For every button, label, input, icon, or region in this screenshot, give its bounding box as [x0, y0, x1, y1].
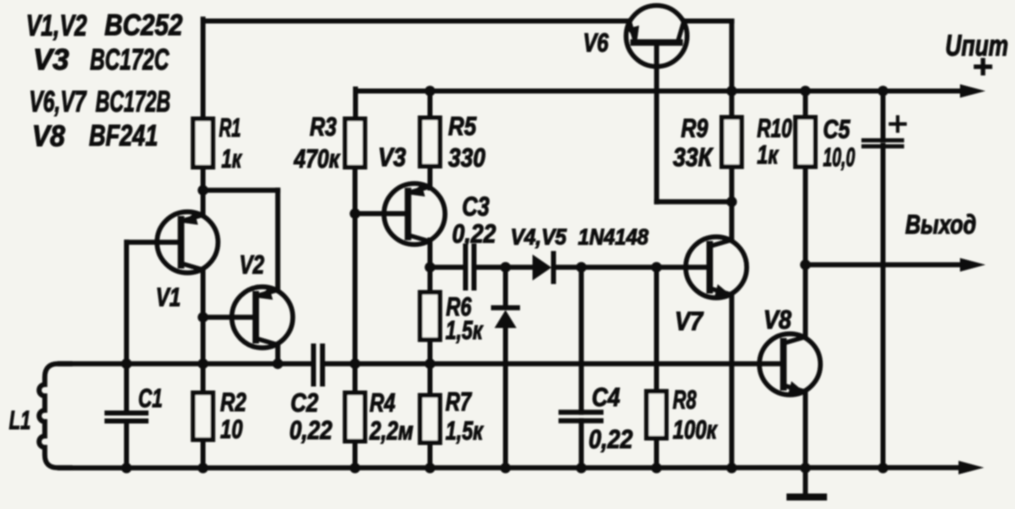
wire C1 branch — [124, 364, 129, 413]
wire V3 base lead — [355, 211, 408, 216]
svg-text:BC172C: BC172C — [90, 44, 169, 77]
wire V6 collector to Vcc rail — [684, 19, 732, 24]
junction at 505.5,468 — [500, 463, 511, 474]
junction at 805.4,264.8 — [800, 260, 811, 271]
wire C3 node segment left — [430, 265, 464, 270]
junction at 731.7,91 — [726, 86, 737, 97]
svg-text:R2: R2 — [220, 387, 246, 417]
wire V7 collector up — [729, 202, 734, 240]
svg-text:100к: 100к — [673, 415, 718, 445]
wire V7 emitter down — [729, 295, 734, 468]
wire V1 emitter up — [201, 190, 206, 215]
resistor R10 — [796, 117, 816, 166]
wire V8 emitter to ground — [803, 392, 808, 494]
wire V2 base lead — [203, 315, 256, 320]
transistor V1 — [157, 212, 218, 273]
wire R5 to V3 collector — [428, 91, 433, 116]
svg-text:1,5к: 1,5к — [446, 315, 484, 345]
ground symbol — [790, 494, 824, 501]
svg-text:R3: R3 — [310, 112, 337, 142]
wire R1 bottom to V2 collector — [201, 170, 206, 191]
junction at 355,468 — [350, 463, 361, 474]
svg-text:V4,V5: V4,V5 — [511, 225, 568, 250]
svg-text:L1: L1 — [9, 405, 31, 435]
wire C4 branch vertical — [579, 267, 584, 412]
wire V1 branch down to R2 — [201, 317, 206, 390]
diode V5 — [495, 310, 517, 328]
svg-text:V7: V7 — [675, 306, 704, 336]
wire mid node C2 to V8 base — [325, 361, 783, 366]
junction at 126.5,468 — [121, 463, 132, 474]
svg-text:1к: 1к — [221, 144, 242, 174]
resistor R3 — [345, 119, 365, 167]
svg-text:V2: V2 — [239, 250, 264, 280]
junction at 203,363.8 — [198, 359, 209, 370]
capacitor C5 polarized — [864, 138, 903, 142]
junction at 355,363.8 — [350, 359, 361, 370]
resistor R8 — [647, 391, 667, 438]
junction at 430,91 — [425, 86, 436, 97]
svg-text:R8: R8 — [673, 385, 697, 415]
junction at 126.5,363.8 — [121, 359, 132, 370]
svg-text:V1: V1 — [156, 282, 181, 312]
svg-text:Выход: Выход — [905, 210, 976, 240]
capacitor C2 — [311, 346, 316, 384]
svg-text:BF241: BF241 — [89, 120, 158, 153]
resistor R7 — [420, 395, 440, 442]
wire R8 branch vertical — [654, 267, 659, 389]
junction at 430,363.8 — [425, 359, 436, 370]
arrowhead ground rail — [959, 461, 985, 475]
svg-text:V3: V3 — [33, 44, 70, 77]
transistor V3 — [384, 184, 445, 245]
wire output line — [805, 262, 962, 267]
junction at 805.4,91 — [800, 86, 811, 97]
junction at 805.4,468 — [800, 463, 811, 474]
svg-text:0,22: 0,22 — [452, 219, 496, 249]
svg-text:R5: R5 — [448, 111, 476, 141]
junction at 731.7,468 — [726, 463, 737, 474]
junction at 430,267.3 — [425, 262, 436, 273]
svg-text:1к: 1к — [757, 140, 779, 170]
wire R3 branch vertical — [353, 89, 358, 117]
wire R7 branch — [428, 364, 433, 393]
wire C3 to V4 diode — [476, 265, 533, 270]
junction at 203,317.3 — [198, 312, 209, 323]
svg-text:0,22: 0,22 — [289, 415, 332, 445]
wire V4 to V7 base — [554, 265, 710, 270]
svg-text:33К: 33К — [673, 142, 714, 172]
capacitor C3 — [463, 246, 468, 288]
resistor R9 — [722, 117, 742, 166]
svg-text:R9: R9 — [681, 113, 708, 143]
svg-text:V6,V7: V6,V7 — [29, 86, 87, 119]
svg-text:V8: V8 — [763, 305, 791, 335]
svg-text:2,2м: 2,2м — [369, 416, 414, 446]
svg-text:10,0: 10,0 — [823, 142, 855, 172]
svg-text:330: 330 — [448, 143, 485, 173]
svg-text:V1,V2: V1,V2 — [26, 10, 87, 43]
resistor R2 — [193, 393, 213, 440]
transistor V8 — [759, 334, 820, 395]
wire V1 collector down to V2 base — [201, 270, 206, 318]
svg-text:BC172B: BC172B — [96, 86, 171, 119]
junction at 883,468 — [878, 463, 889, 474]
wire top from R1 to V6 emitter — [203, 19, 629, 24]
junction at 731.7,201.8 — [726, 197, 737, 208]
resistor R4 — [345, 393, 365, 441]
svg-text:1,5к: 1,5к — [446, 416, 485, 446]
junction at 581.3,468 — [576, 463, 587, 474]
svg-text:470к: 470к — [293, 144, 341, 174]
svg-text:R10: R10 — [757, 113, 792, 143]
svg-text:10: 10 — [220, 414, 243, 444]
junction at 203,468 — [198, 463, 209, 474]
wire R10 down to V8 collector — [803, 91, 808, 115]
svg-text:V8: V8 — [32, 120, 66, 153]
resistor R6 — [420, 292, 440, 339]
wire V3 emitter down to C3 node — [428, 240, 433, 267]
arrowhead Vcc rail — [960, 84, 986, 98]
transistor V2 — [232, 287, 293, 348]
resistor R5 — [420, 118, 440, 166]
svg-text:R4: R4 — [370, 388, 396, 418]
diode V4 — [533, 255, 552, 281]
wire R6 branch — [428, 267, 433, 290]
junction at 430,468 — [425, 463, 436, 474]
wire mid node from L1 to C2 — [60, 361, 312, 366]
capacitor C4 — [561, 410, 601, 415]
junction at 883,91 — [878, 86, 889, 97]
junction at 656.5,468 — [651, 463, 662, 474]
junction at 355,213.6 — [350, 208, 361, 219]
svg-text:BC252: BC252 — [105, 9, 184, 42]
resistor R1 — [193, 119, 213, 167]
junction at 581.3,267.3 — [576, 262, 587, 273]
svg-text:1N4148: 1N4148 — [578, 225, 649, 250]
wire R9 branch — [729, 91, 734, 115]
svg-text:C4: C4 — [592, 382, 621, 412]
svg-text:C3: C3 — [462, 192, 490, 222]
svg-text:V3: V3 — [378, 142, 406, 172]
junction at 277.8,363.8 — [273, 359, 284, 370]
wire bottom ground rail — [60, 465, 960, 470]
transistor V7 — [686, 237, 747, 298]
svg-text:R1: R1 — [219, 113, 241, 143]
wire C5 branch — [881, 91, 886, 140]
junction at 656.5,267.3 — [651, 262, 662, 273]
junction at 203,190.3 — [198, 185, 209, 196]
plus sign of C5 — [891, 122, 906, 126]
transistor V6 — [626, 6, 687, 67]
svg-text:C1: C1 — [138, 383, 162, 413]
wire V5 branch vertical — [503, 267, 508, 306]
arrowhead output — [960, 258, 986, 272]
inductor L1 — [39, 364, 70, 468]
svg-text:V6: V6 — [583, 28, 609, 58]
wire R4 branch — [353, 364, 358, 391]
wire V1 base down to mid node — [127, 240, 182, 245]
svg-text:Uпит: Uпит — [945, 30, 1008, 63]
plus sign Uпит — [976, 64, 990, 69]
junction at 505.5,267.3 — [500, 262, 511, 273]
svg-text:R7: R7 — [446, 387, 473, 417]
wire V2 emitter to mid node — [275, 345, 280, 364]
capacitor C1 — [107, 411, 146, 416]
svg-text:C2: C2 — [291, 388, 319, 418]
svg-text:0,22: 0,22 — [589, 424, 634, 454]
svg-text:C5: C5 — [823, 114, 850, 144]
wire V6 base down and over to R9 bottom — [654, 46, 659, 202]
wire Vcc supply rail — [356, 89, 963, 94]
